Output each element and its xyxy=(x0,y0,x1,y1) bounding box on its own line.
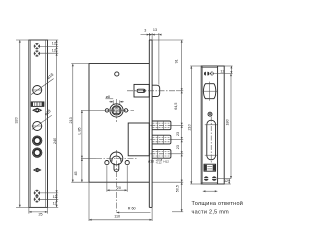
d8 square dim ticks xyxy=(109,100,124,105)
spindle square hole xyxy=(113,107,120,114)
dim 20 ext right xyxy=(126,165,128,191)
extension hole4 xyxy=(40,198,58,200)
svg-text:L 85: L 85 xyxy=(77,127,81,134)
spindle side screw left xyxy=(105,109,108,112)
spindle crosshair horizontal xyxy=(99,109,134,111)
latch inner slot xyxy=(137,89,145,92)
dim 20 ext left xyxy=(106,165,108,191)
ext bottom right pair xyxy=(217,178,231,180)
ext 110 left xyxy=(88,182,90,221)
extension hole2 xyxy=(40,52,58,54)
top extension line xyxy=(16,39,58,41)
latch opening crosshair xyxy=(202,82,217,101)
svg-text:180: 180 xyxy=(226,119,230,125)
faceplate inner fold line left xyxy=(30,40,32,207)
extension 25 left xyxy=(28,207,30,213)
hole d18 upper circle xyxy=(33,86,42,95)
R60 leader xyxy=(116,212,150,214)
svg-text:H12: H12 xyxy=(163,159,169,163)
svg-text:ø18: ø18 xyxy=(148,159,154,163)
ext plate top left xyxy=(190,65,201,67)
spindle crosshair vertical xyxy=(116,99,118,122)
right dimension chain line xyxy=(181,40,183,212)
svg-text:3: 3 xyxy=(144,29,146,33)
extension hole1 xyxy=(40,46,58,48)
leader line for d18 upper xyxy=(31,79,54,95)
faceplate edge strip right line xyxy=(151,40,153,207)
latch head xyxy=(152,85,160,96)
latch slot pin xyxy=(143,90,145,92)
strike plate inner bottom line xyxy=(201,182,217,184)
euro cylinder slot xyxy=(114,163,119,171)
dim 210 line xyxy=(190,66,192,184)
svg-text:-0,12: -0,12 xyxy=(156,161,162,165)
svg-text:12: 12 xyxy=(53,202,57,206)
bottom slotted screw right xyxy=(212,176,217,180)
hole d18 circle mid xyxy=(33,122,42,131)
latch opening barrel shape xyxy=(204,84,216,99)
svg-text:50,5: 50,5 xyxy=(176,185,180,192)
extension hole3 xyxy=(40,192,58,194)
svg-text:13: 13 xyxy=(153,28,157,32)
ext case top to 213 dim xyxy=(71,63,89,65)
svg-text:ø8: ø8 xyxy=(106,95,110,99)
slot bottom crosshair xyxy=(205,154,218,156)
ext 91 top xyxy=(152,39,183,41)
middle screw hole xyxy=(208,112,212,116)
spindle follower inner xyxy=(112,106,121,115)
dim 12 bottom right xyxy=(224,179,231,184)
ext 50,5 bottom xyxy=(172,211,183,213)
cylinder side screw right xyxy=(125,161,129,165)
screw hole bottom 1 xyxy=(34,190,40,196)
bolt 1 side view xyxy=(150,121,171,130)
small circle top of case xyxy=(115,72,119,76)
strike plate outer rect xyxy=(201,66,224,184)
dim 180 line xyxy=(230,74,232,179)
faceplate edge strip left line xyxy=(148,40,150,207)
dim 12 top right xyxy=(230,66,232,74)
ext case bottom to left xyxy=(71,181,89,183)
ext bolt3 center xyxy=(171,153,183,155)
euro cylinder inner arc xyxy=(112,156,121,162)
dimension 25 line xyxy=(29,211,48,213)
dim 110 line xyxy=(89,219,152,221)
spindle follower outer xyxy=(110,104,123,117)
strip bottom cap xyxy=(149,206,152,208)
svg-text:12: 12 xyxy=(224,179,228,183)
faceplate inner fold line right xyxy=(45,40,47,207)
bottom extension line xyxy=(16,206,58,208)
ext cylinder center left xyxy=(81,157,96,159)
deadbolt slot centerline xyxy=(210,117,212,164)
bottom slotted screw left xyxy=(204,176,209,180)
svg-text:12: 12 xyxy=(220,70,224,74)
lock case outline xyxy=(89,64,149,183)
small diamond lower xyxy=(34,168,41,172)
cylinder center vertical line xyxy=(115,150,117,213)
ext bolt1 center xyxy=(171,124,183,126)
svg-text:12: 12 xyxy=(53,195,57,199)
svg-text:части 2,5 mm: части 2,5 mm xyxy=(192,210,230,216)
ext latch centerline to dim xyxy=(176,90,183,92)
ext spindle center left xyxy=(81,109,99,111)
cylinder crosshair horizontal xyxy=(96,157,137,159)
screw hole top 2 xyxy=(34,51,40,57)
top slotted hole xyxy=(204,71,209,75)
svg-text:23: 23 xyxy=(176,145,180,149)
latch centerline xyxy=(127,90,176,92)
spindle side screw right xyxy=(124,109,127,112)
latch body rectangle xyxy=(134,84,149,97)
svg-text:64,5: 64,5 xyxy=(174,103,178,110)
svg-text:240: 240 xyxy=(53,138,57,144)
svg-text:23: 23 xyxy=(176,132,180,136)
dim 13 extension from latch tip xyxy=(158,33,160,85)
leader line for d18 mid xyxy=(32,115,52,129)
svg-text:R 60: R 60 xyxy=(128,206,136,210)
bolt housing rect xyxy=(128,123,149,156)
svg-text:91: 91 xyxy=(175,59,179,63)
dim 45 line xyxy=(81,158,83,182)
top screw hole xyxy=(210,72,214,76)
bolt hole ring 1 xyxy=(33,136,42,145)
svg-text:45: 45 xyxy=(74,171,78,175)
ext bolt2 center xyxy=(171,139,183,141)
latch front view hatched xyxy=(31,102,44,107)
ext top right b xyxy=(214,73,233,75)
svg-text:25: 25 xyxy=(39,212,43,216)
dimension line right of plate xyxy=(56,40,58,207)
dim 213 line xyxy=(72,64,74,183)
svg-text:Толщина ответной: Толщина ответной xyxy=(192,200,244,207)
cylinder side screw left xyxy=(105,161,109,165)
ext 110 right xyxy=(151,207,153,221)
strike plate fold line xyxy=(217,66,219,184)
diamond hole with circle xyxy=(33,108,41,112)
svg-text:12: 12 xyxy=(52,48,56,52)
svg-text:110: 110 xyxy=(114,215,120,219)
euro cylinder circle outer xyxy=(110,152,123,165)
dim L85 line xyxy=(81,110,83,158)
bolt hole ring 2 xyxy=(33,148,42,157)
dim 20 line xyxy=(107,189,127,191)
adjuster block xyxy=(204,164,216,171)
screw hole bottom 2 xyxy=(34,196,40,202)
ext case bottom right for 50,5 xyxy=(152,181,183,183)
strike plate inner left line xyxy=(202,66,204,184)
svg-text:20: 20 xyxy=(117,186,121,190)
dim 3 13 extension left xyxy=(148,33,150,40)
strike width dim line xyxy=(203,190,218,192)
strike plate inner top line xyxy=(201,66,217,68)
dim 3 13 extension mid xyxy=(151,33,153,40)
strip top cap xyxy=(149,39,152,41)
screw hole top 1 xyxy=(34,43,40,49)
svg-text:210: 210 xyxy=(188,124,192,130)
deadbolt slot xyxy=(207,120,216,160)
dimension 320 line xyxy=(19,40,21,207)
faceplate outer rectangle xyxy=(29,40,48,207)
dim line 3 and 13 xyxy=(141,34,162,36)
bolt 2 side view xyxy=(150,135,171,144)
svg-text:320: 320 xyxy=(15,117,19,123)
ext plate bottom left xyxy=(190,183,201,185)
svg-text:12: 12 xyxy=(52,42,56,46)
ext top right a xyxy=(224,65,232,67)
bolt 3 side view xyxy=(150,150,171,159)
extension 25 right xyxy=(47,207,49,213)
svg-text:213: 213 xyxy=(69,117,73,123)
